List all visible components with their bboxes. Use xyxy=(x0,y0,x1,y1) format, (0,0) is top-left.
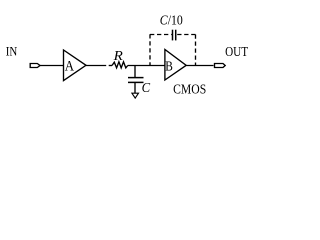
input port IN xyxy=(30,64,40,68)
resistor R xyxy=(112,62,128,68)
op-amp B xyxy=(165,50,186,81)
wire IN to op-amp A xyxy=(40,65,64,67)
svg-text:A: A xyxy=(65,58,74,74)
wire capacitor C to ground xyxy=(134,83,136,93)
output port OUT xyxy=(215,64,226,68)
wire segment before resistor xyxy=(109,65,112,67)
capacitor C bottom plate xyxy=(128,81,144,83)
wire R to op-amp B xyxy=(128,65,165,67)
capacitor C/10 left plate xyxy=(172,30,174,41)
svg-text:B: B xyxy=(165,60,173,75)
svg-text:IN: IN xyxy=(6,44,18,59)
dashed feedback tap left vertical xyxy=(149,34,151,65)
svg-text:CMOS: CMOS xyxy=(173,82,206,97)
dashed feedback tap right vertical xyxy=(195,35,197,66)
op-amp A xyxy=(64,50,87,81)
svg-text:R: R xyxy=(113,49,124,64)
dashed feedback top left segment xyxy=(150,34,172,36)
wire junction down to capacitor C xyxy=(134,66,136,78)
ground xyxy=(132,93,139,98)
capacitor C/10 right plate xyxy=(175,30,177,41)
svg-text:C: C xyxy=(142,80,151,95)
svg-text:OUT: OUT xyxy=(225,45,248,60)
svg-text:C/10: C/10 xyxy=(160,14,183,29)
capacitor C top plate xyxy=(128,77,144,79)
wire A to resistor R xyxy=(86,65,106,67)
wire B to OUT xyxy=(186,65,213,67)
dashed feedback top right segment xyxy=(177,34,196,36)
